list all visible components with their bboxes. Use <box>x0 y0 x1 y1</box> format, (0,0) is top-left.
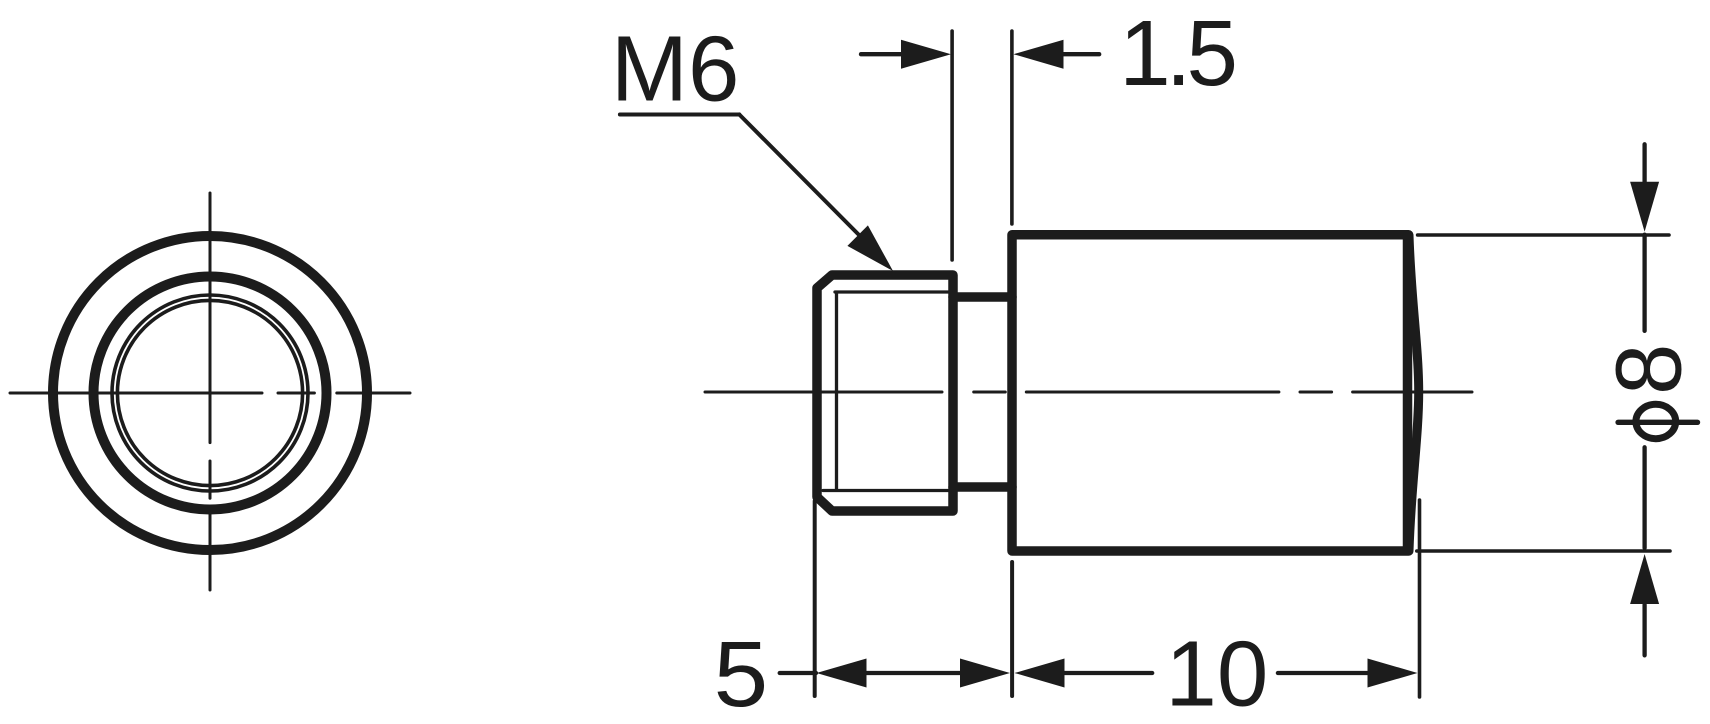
dim phi8 arrow top <box>1630 182 1659 232</box>
dim 10 arrow left <box>1015 659 1065 688</box>
svg-text:8: 8 <box>1597 344 1701 395</box>
dim 10 dimension line right <box>1278 671 1368 675</box>
front view thread circle 2 <box>117 300 302 485</box>
M6 leader underline <box>620 113 739 117</box>
dim phi8 extension line bottom <box>1417 549 1670 553</box>
dim 1.5 extension line left <box>950 31 954 260</box>
front view horizontal centerline <box>10 392 410 395</box>
dim 1.5 extension line right <box>1010 31 1014 224</box>
side view body outline <box>1012 235 1409 551</box>
dim 1.5 dimension line left <box>861 52 904 56</box>
dim 5-10 extension line B <box>1010 562 1014 696</box>
dim phi8 phi symbol stem <box>1618 420 1697 425</box>
dim phi8 dimension line top <box>1642 144 1646 331</box>
svg-text:M6: M6 <box>611 16 740 120</box>
front view thread circle 1 <box>112 295 308 491</box>
side view neck shoulder lines <box>953 297 1012 487</box>
dim phi8 arrow bottom <box>1630 554 1659 604</box>
side view body end arc <box>1409 235 1419 551</box>
side view horizontal centerline <box>705 391 1472 394</box>
dim 10 dimension line left <box>1065 671 1153 675</box>
svg-text:5: 5 <box>714 624 769 724</box>
dim 5 dimension line <box>867 671 961 675</box>
dim phi8 dimension line bottom <box>1642 447 1646 655</box>
dim 10 arrow right <box>1368 659 1418 688</box>
dim 10 extension line C <box>1418 500 1422 697</box>
dim 5 arrow left <box>817 659 867 688</box>
M6 leader arrowhead <box>847 225 893 271</box>
dim 1.5 arrow right <box>1014 40 1064 69</box>
dim 5 extension line A <box>813 501 817 696</box>
front view outer circle <box>53 236 367 550</box>
dim phi8 phi symbol ellipse <box>1636 404 1676 438</box>
dim phi8 extension line top <box>1418 233 1669 237</box>
svg-text:1.5: 1.5 <box>1119 1 1234 105</box>
front view vertical centerline <box>209 193 212 590</box>
dim 5 arrow right <box>960 659 1010 688</box>
svg-text:10: 10 <box>1165 622 1268 724</box>
side view thread outline <box>817 275 953 511</box>
dim 1.5 arrow left <box>901 40 951 69</box>
front view middle circle <box>94 277 327 510</box>
dim 5 leader line <box>780 671 816 675</box>
side view thread minor diameter lines <box>823 292 951 491</box>
dim 1.5 dimension line right <box>1064 52 1100 56</box>
M6 leader diagonal <box>739 115 864 241</box>
